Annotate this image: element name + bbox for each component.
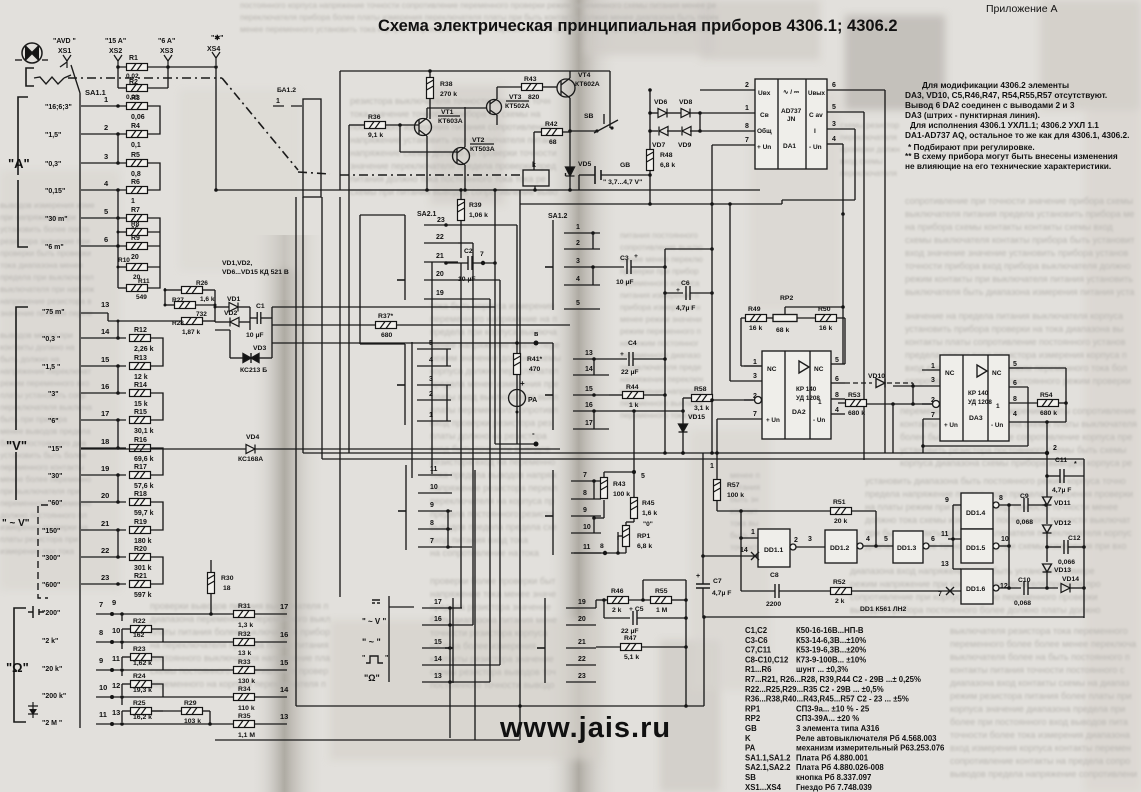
svg-text:16: 16 — [434, 616, 442, 623]
svg-text:+: + — [620, 351, 624, 358]
svg-text:3: 3 — [576, 258, 580, 265]
svg-text:1: 1 — [751, 529, 755, 536]
logic gate DD1.5 — [961, 529, 993, 563]
svg-text:R42: R42 — [545, 121, 558, 128]
svg-text:R43: R43 — [613, 481, 626, 488]
resistor R34 — [234, 694, 255, 701]
transistor VT2 — [453, 148, 470, 165]
svg-text:+ Un: + Un — [757, 144, 771, 151]
svg-text:AD737: AD737 — [781, 108, 802, 115]
svg-text:VD15: VD15 — [688, 414, 705, 421]
svg-text:21: 21 — [436, 253, 444, 260]
svg-text:"Ω": "Ω" — [364, 673, 380, 683]
svg-text:1,6 k: 1,6 k — [642, 510, 657, 517]
svg-text:"V": "V" — [6, 438, 27, 453]
svg-text:"30 m": "30 m" — [45, 216, 68, 223]
svg-text:DD1.5: DD1.5 — [966, 545, 985, 552]
pin 6 — [827, 89, 885, 91]
svg-text:не влияющие на его технически: не влияющие на его технические характери… — [905, 161, 1111, 171]
resistor R58 — [692, 395, 713, 402]
svg-text:R46: R46 — [611, 588, 624, 595]
push button SB — [570, 130, 597, 132]
svg-text:470: 470 — [529, 366, 541, 373]
svg-text:1,6 k: 1,6 k — [200, 296, 215, 303]
svg-text:6,8 k: 6,8 k — [637, 543, 652, 550]
svg-text:NC: NC — [992, 370, 1002, 377]
svg-text:2,26 k: 2,26 k — [134, 346, 154, 353]
resistor R25 — [131, 708, 152, 715]
resistor R40 — [601, 478, 608, 499]
wire y657 — [610, 654, 880, 656]
svg-text:VD2: VD2 — [224, 310, 237, 317]
svg-text:2: 2 — [429, 391, 433, 398]
svg-text:3: 3 — [753, 373, 757, 380]
svg-text:8: 8 — [1013, 396, 1017, 403]
svg-text:0,066: 0,066 — [1058, 559, 1075, 566]
svg-text:R21: R21 — [134, 573, 147, 580]
op-amp DA2 — [762, 351, 831, 439]
svg-text:R12: R12 — [134, 327, 147, 334]
svg-text:C11: C11 — [1055, 457, 1067, 464]
svg-text:13: 13 — [101, 300, 109, 309]
resistor R5 — [127, 160, 148, 167]
svg-text:2: 2 — [1053, 445, 1057, 452]
logic gate DD1.4 — [961, 493, 993, 529]
svg-text:www.jais.ru: www.jais.ru — [499, 712, 671, 744]
pin 2 — [700, 89, 755, 91]
svg-text:10: 10 — [112, 626, 120, 635]
svg-text:1: 1 — [429, 412, 433, 419]
terminal XS2 — [114, 55, 122, 68]
svg-text:VT4: VT4 — [578, 72, 591, 79]
svg-text:R3: R3 — [131, 95, 140, 102]
svg-text:19,3 k: 19,3 k — [133, 687, 152, 694]
svg-text:14: 14 — [101, 327, 110, 336]
svg-text:SA1.2: SA1.2 — [548, 213, 568, 220]
resistor R38 — [427, 78, 434, 99]
svg-text:23: 23 — [101, 573, 109, 582]
svg-text:1,87 k: 1,87 k — [182, 329, 200, 336]
svg-text:"16;6;3": "16;6;3" — [45, 104, 72, 111]
svg-text:2: 2 — [794, 537, 798, 544]
svg-text:" ~ V": " ~ V" — [2, 518, 30, 529]
svg-text:10: 10 — [99, 683, 107, 692]
svg-text:15: 15 — [101, 355, 109, 364]
op-amp DA3 — [940, 355, 1009, 441]
svg-text:3: 3 — [808, 536, 812, 543]
svg-text:20 k: 20 k — [834, 518, 847, 525]
svg-text:10: 10 — [430, 484, 438, 491]
svg-text:549: 549 — [136, 294, 147, 301]
svg-text:XS1: XS1 — [58, 48, 71, 55]
svg-text:"6": "6" — [48, 418, 59, 425]
svg-text:R29: R29 — [184, 700, 197, 707]
logic gate DD1.3 — [893, 531, 923, 563]
capacitor C2 — [460, 190, 462, 258]
scan shading: central fold band — [545, 0, 620, 792]
svg-text:17: 17 — [101, 409, 109, 418]
svg-text:820: 820 — [528, 94, 540, 101]
svg-text:21: 21 — [101, 519, 109, 528]
resistor R52 — [831, 588, 852, 595]
A-range ladder — [79, 100, 81, 728]
svg-text:R23: R23 — [133, 646, 146, 653]
resistor R44 — [623, 392, 644, 399]
svg-text:"Ω": "Ω" — [6, 660, 29, 675]
resistor R57 — [714, 480, 721, 501]
switch bank SA2.1a — [404, 215, 406, 300]
resistor R54 — [1038, 400, 1059, 407]
svg-text:10 µF: 10 µF — [616, 279, 634, 286]
svg-text:PA: PA — [745, 744, 756, 753]
switch bank SA2.1c — [405, 465, 407, 550]
svg-text:5: 5 — [104, 207, 108, 216]
svg-text:БА1.2: БА1.2 — [277, 87, 296, 94]
svg-text:9: 9 — [430, 502, 434, 509]
svg-text:9,1 k: 9,1 k — [368, 132, 383, 139]
svg-text:"0,3 ": "0,3 " — [42, 336, 60, 343]
resistor R46 — [608, 597, 629, 604]
svg-text:4: 4 — [835, 407, 839, 414]
svg-text:+: + — [696, 573, 700, 580]
svg-text:7: 7 — [753, 411, 757, 418]
svg-text:110 k: 110 k — [238, 705, 255, 712]
resistor R41 — [514, 354, 521, 375]
svg-text:R57: R57 — [727, 482, 740, 489]
switch bank SA1.2c — [552, 470, 554, 555]
svg-text:6: 6 — [835, 376, 839, 383]
resistor R4 — [127, 131, 148, 138]
svg-text:R11: R11 — [138, 278, 150, 285]
svg-text:16 k: 16 k — [819, 325, 832, 332]
transistor VT1 — [415, 119, 432, 136]
resistor R43 — [522, 84, 543, 91]
wire long bottom — [296, 705, 704, 707]
svg-text:"✱": "✱" — [211, 34, 224, 42]
svg-text:1: 1 — [931, 363, 935, 370]
svg-text:9: 9 — [112, 598, 116, 607]
svg-text:R37*: R37* — [378, 313, 393, 320]
svg-text:5: 5 — [641, 473, 645, 480]
svg-text:C1,C2: C1,C2 — [745, 626, 768, 635]
terminal XS4 — [212, 52, 220, 65]
svg-text:8: 8 — [999, 495, 1003, 502]
svg-text:16: 16 — [280, 630, 288, 639]
svg-text:R53: R53 — [848, 392, 861, 399]
svg-text:GB: GB — [745, 724, 757, 733]
svg-text:100 k: 100 k — [613, 491, 630, 498]
svg-text:162: 162 — [133, 632, 145, 639]
resistor R27 — [175, 302, 196, 309]
svg-text:SB: SB — [584, 113, 594, 120]
svg-text:5: 5 — [1013, 361, 1017, 368]
svg-text:5: 5 — [835, 357, 839, 364]
svg-text:1,62 k: 1,62 k — [133, 660, 152, 667]
svg-text:R22: R22 — [133, 618, 146, 625]
svg-text:3: 3 — [931, 377, 935, 384]
V bracket — [16, 307, 28, 500]
svg-text:13 k: 13 k — [238, 650, 251, 657]
omega bracket — [14, 608, 26, 722]
A bracket — [18, 97, 28, 247]
svg-text:R18: R18 — [134, 491, 147, 498]
svg-text:19: 19 — [578, 599, 586, 606]
svg-text:Плата Рб 4.880.001: Плата Рб 4.880.001 — [796, 753, 869, 762]
svg-text:1: 1 — [996, 403, 1000, 410]
svg-text:1: 1 — [276, 98, 280, 105]
resistor R55 — [651, 597, 672, 604]
svg-text:17: 17 — [434, 599, 442, 606]
svg-text:К73-9-100В... ±10%: К73-9-100В... ±10% — [796, 655, 866, 664]
lamp HL — [15, 43, 48, 63]
svg-text:4,7µ F: 4,7µ F — [1052, 487, 1071, 494]
wire rail y204 — [520, 203, 782, 205]
svg-text:NC: NC — [767, 366, 777, 373]
svg-text:XS3: XS3 — [160, 48, 173, 55]
svg-text:SA1.1,SA1.2: SA1.1,SA1.2 — [745, 753, 791, 762]
svg-text:R25: R25 — [133, 700, 146, 707]
svg-text:7: 7 — [931, 412, 935, 419]
svg-text:7: 7 — [745, 137, 749, 144]
resistor R48 — [647, 150, 654, 171]
resistor R26 — [182, 287, 203, 294]
pin 3 — [827, 128, 855, 130]
svg-text:1: 1 — [131, 198, 135, 205]
svg-text:"0,15": "0,15" — [45, 188, 65, 195]
svg-text:5,1 k: 5,1 k — [624, 654, 639, 661]
svg-text:6,8 k: 6,8 k — [660, 162, 675, 169]
resistor R22 — [131, 626, 152, 633]
svg-text:C4: C4 — [628, 340, 637, 347]
zener VD5 — [566, 167, 575, 176]
resistor R35 — [234, 721, 255, 728]
svg-text:R38: R38 — [440, 81, 453, 88]
svg-text:R30: R30 — [221, 575, 234, 582]
svg-text:7: 7 — [480, 251, 484, 258]
svg-text:6: 6 — [1013, 380, 1017, 387]
capacitor C4 — [609, 358, 627, 360]
svg-text:3: 3 — [104, 152, 108, 161]
svg-text:100 k: 100 k — [727, 492, 744, 499]
resistor R39 — [458, 200, 465, 221]
svg-text:2 k: 2 k — [612, 607, 622, 614]
svg-text:R43: R43 — [524, 76, 537, 83]
relay K — [523, 170, 549, 186]
svg-text:VD1,VD2,: VD1,VD2, — [222, 260, 252, 267]
svg-text:DD1.6: DD1.6 — [966, 586, 985, 593]
svg-text:2: 2 — [576, 240, 580, 247]
logic gate DD1.2 — [825, 530, 857, 563]
svg-text:"6 A": "6 A" — [158, 38, 175, 45]
svg-text:57,6 k: 57,6 k — [134, 483, 154, 490]
resistor R21 — [130, 581, 151, 588]
svg-text:103 k: 103 k — [184, 718, 201, 725]
svg-text:4,7µ F: 4,7µ F — [712, 590, 731, 597]
svg-text:1: 1 — [745, 105, 749, 112]
svg-text:3: 3 — [832, 121, 836, 128]
svg-text:R47: R47 — [624, 635, 637, 642]
svg-text:5: 5 — [832, 104, 836, 111]
svg-text:SA2.1: SA2.1 — [417, 211, 437, 218]
resistor R6 — [127, 187, 148, 194]
svg-text:R48: R48 — [660, 152, 673, 159]
svg-text:69,6 k: 69,6 k — [134, 456, 154, 463]
scan shading: left-middle fold band — [250, 235, 326, 792]
mech dash-dot link — [68, 77, 222, 79]
svg-text:9: 9 — [99, 656, 103, 665]
svg-text:18: 18 — [223, 585, 231, 592]
svg-text:Uвх: Uвх — [758, 90, 771, 97]
svg-text:КТ602А: КТ602А — [575, 81, 600, 88]
svg-text:"0": "0" — [643, 521, 653, 528]
svg-text:680: 680 — [381, 332, 393, 339]
svg-text:+ Un: + Un — [944, 422, 958, 429]
svg-text:12: 12 — [112, 681, 120, 690]
svg-text:R16: R16 — [134, 437, 147, 444]
svg-text:10 µF: 10 µF — [246, 332, 264, 339]
resistor R33 — [234, 667, 255, 674]
svg-text:1: 1 — [818, 399, 822, 406]
capacitor C6 — [665, 292, 683, 294]
svg-text:УД 1208: УД 1208 — [796, 395, 820, 402]
svg-text:17: 17 — [280, 602, 288, 611]
wire bundle bankA to bank SA2.2a — [460, 263, 462, 608]
resistor R36 — [365, 122, 386, 129]
svg-text:SB: SB — [745, 773, 756, 782]
svg-text:R51: R51 — [833, 499, 846, 506]
transistor VT4 — [557, 79, 575, 97]
svg-text:11: 11 — [430, 466, 438, 473]
svg-text:5: 5 — [429, 340, 433, 347]
svg-text:DD1.3: DD1.3 — [897, 545, 916, 552]
resistor R14 — [130, 390, 151, 397]
svg-text:20: 20 — [578, 616, 586, 623]
wire top rail — [118, 66, 216, 68]
svg-text:механизм измерительный Р63.2: механизм измерительный Р63.253.076 — [796, 744, 945, 753]
svg-text:": " — [385, 655, 388, 662]
svg-text:": " — [362, 655, 365, 662]
svg-text:Общ: Общ — [757, 127, 772, 135]
svg-text:кнопка Рб 8.337.097: кнопка Рб 8.337.097 — [796, 773, 871, 782]
svg-text:" ~ ": " ~ " — [362, 637, 381, 647]
svg-text:R36...R38,R40...R43,R45...R57: R36...R38,R40...R43,R45...R57 С2 - 23 ..… — [745, 695, 909, 704]
svg-text:+ Un: + Un — [766, 417, 780, 424]
svg-text:R27: R27 — [172, 297, 184, 304]
resistor R11 — [118, 287, 126, 289]
svg-text:R58: R58 — [694, 386, 707, 393]
switch SA1.1 — [64, 65, 80, 100]
lamp bracket — [26, 68, 34, 86]
resistor R30 — [208, 573, 215, 594]
svg-text:VD7: VD7 — [652, 142, 665, 149]
svg-text:22: 22 — [578, 656, 586, 663]
svg-text:1: 1 — [753, 359, 757, 366]
resistor R32 — [234, 639, 255, 646]
svg-text:4: 4 — [832, 136, 836, 143]
svg-text:VD3: VD3 — [253, 345, 266, 352]
svg-text:R45: R45 — [642, 500, 655, 507]
resistor R31 — [234, 611, 255, 618]
svg-text:14: 14 — [280, 685, 289, 694]
svg-text:C1: C1 — [256, 303, 265, 310]
resistor R53 — [846, 400, 867, 407]
svg-text:R33: R33 — [238, 659, 251, 666]
svg-text:8: 8 — [745, 123, 749, 130]
svg-text:k: k — [532, 162, 536, 169]
svg-text:0,1: 0,1 — [131, 142, 141, 149]
svg-text:VD13: VD13 — [1054, 567, 1071, 574]
resistor R23 — [131, 654, 152, 661]
svg-text:68 k: 68 k — [776, 327, 789, 334]
svg-text:1: 1 — [576, 224, 580, 231]
svg-text:- Un: - Un — [991, 422, 1003, 429]
svg-text:VD12: VD12 — [1054, 520, 1071, 527]
wire y190 long — [216, 189, 760, 191]
wire bus — [303, 452, 1046, 454]
svg-text:DA1: DA1 — [783, 143, 796, 150]
svg-text:4: 4 — [576, 276, 580, 283]
svg-text:VD11: VD11 — [1054, 500, 1071, 507]
svg-text:RP1: RP1 — [745, 704, 761, 713]
svg-text:15: 15 — [434, 639, 442, 646]
pin 7 — [712, 144, 755, 146]
svg-text:1: 1 — [710, 463, 714, 470]
svg-text:8: 8 — [835, 392, 839, 399]
svg-text:Для исполнения 4306.1 УХЛ1.1;: Для исполнения 4306.1 УХЛ1.1; 4306.2 УХЛ… — [910, 120, 1099, 130]
svg-text:SA2.1,SA2.2: SA2.1,SA2.2 — [745, 763, 791, 772]
svg-text:270 k: 270 k — [440, 91, 457, 98]
svg-text:R31: R31 — [238, 603, 251, 610]
resistor R37 — [272, 324, 375, 326]
svg-text:КС213 Б: КС213 Б — [240, 367, 267, 374]
svg-text:R13: R13 — [134, 355, 147, 362]
resistor R45 — [631, 498, 638, 519]
svg-text:9: 9 — [583, 507, 587, 514]
svg-text:19: 19 — [101, 464, 109, 473]
piezo BA1.2 — [303, 99, 321, 197]
svg-text:К53-19-6,3В...±20%: К53-19-6,3В...±20% — [796, 646, 866, 655]
svg-text:XS1...XS4: XS1...XS4 — [745, 783, 782, 792]
svg-text:КР 140: КР 140 — [968, 390, 989, 397]
svg-text:"2 k": "2 k" — [42, 638, 58, 645]
svg-text:- Un: - Un — [809, 144, 822, 151]
svg-text:"А": "А" — [8, 156, 30, 171]
svg-text:13: 13 — [434, 673, 442, 680]
svg-text:3,1 k: 3,1 k — [694, 405, 709, 412]
svg-text:"600": "600" — [42, 582, 60, 589]
svg-text:+: + — [520, 379, 525, 388]
resistor R9 — [127, 243, 148, 250]
diode VD7 — [659, 127, 668, 136]
svg-text:RP2: RP2 — [780, 295, 793, 302]
svg-text:" ~ V ": " ~ V " — [362, 617, 386, 626]
svg-text:DA3, VD10, C5,R46,R47, R54,R55: DA3, VD10, C5,R46,R47, R54,R55,R57 отсут… — [905, 90, 1107, 100]
svg-text:"15 A": "15 A" — [105, 38, 126, 45]
svg-text:7: 7 — [583, 472, 587, 479]
svg-text:R4: R4 — [131, 123, 140, 130]
svg-text:"1,5": "1,5" — [45, 132, 61, 139]
svg-text:"150": "150" — [42, 528, 60, 535]
svg-text:Плата Рб 4.880.026-008: Плата Рб 4.880.026-008 — [796, 763, 884, 772]
svg-text:R7: R7 — [131, 207, 140, 214]
svg-text:VT2: VT2 — [472, 137, 485, 144]
svg-text:6: 6 — [104, 235, 108, 244]
svg-text:** В схему прибора могут быть: ** В схему прибора могут быть внесены из… — [905, 151, 1118, 161]
wire verticals bundle — [664, 249, 666, 453]
svg-text:180 k: 180 k — [134, 538, 152, 545]
svg-text:"200 k": "200 k" — [42, 693, 66, 700]
svg-text:XS4: XS4 — [207, 46, 220, 53]
